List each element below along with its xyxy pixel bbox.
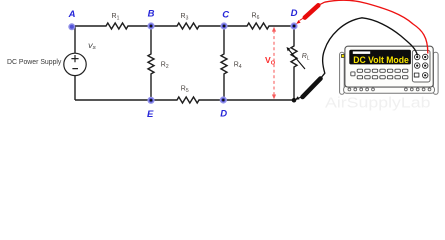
svg-text:R6: R6 (252, 13, 260, 22)
svg-text:D: D (220, 108, 227, 119)
svg-text:R5: R5 (181, 86, 189, 95)
svg-text:R4: R4 (234, 62, 242, 71)
svg-text:D: D (291, 8, 298, 19)
svg-text:R3: R3 (181, 13, 189, 22)
svg-text:RL: RL (302, 53, 310, 62)
svg-text:VS: VS (88, 43, 97, 51)
svg-text:VO: VO (265, 55, 276, 67)
svg-text:E: E (147, 109, 154, 120)
svg-text:DC Volt Mode: DC Volt Mode (353, 54, 409, 65)
svg-text:C: C (222, 10, 229, 21)
svg-text:A: A (68, 9, 76, 20)
svg-text:AirSupplyLab: AirSupplyLab (325, 96, 431, 112)
svg-text:DC Power Supply: DC Power Supply (7, 59, 62, 66)
svg-text:R2: R2 (161, 62, 169, 71)
svg-text:B: B (148, 9, 155, 20)
svg-text:R1: R1 (112, 13, 120, 22)
